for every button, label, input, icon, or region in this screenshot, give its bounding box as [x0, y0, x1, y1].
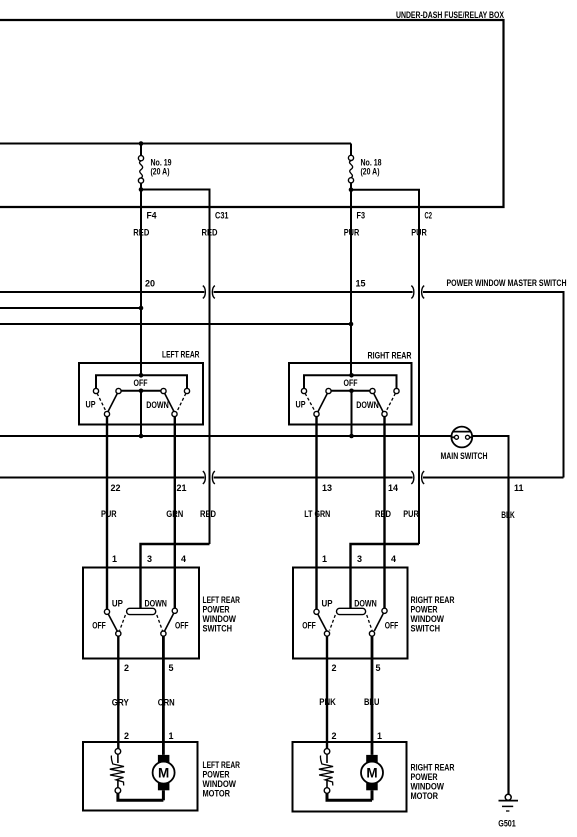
wire internal tee from pin 15 — [0, 322, 353, 327]
left rear power window motor label — [203, 760, 241, 799]
right rear power window motor box — [293, 742, 407, 812]
pin 1 — [112, 554, 117, 564]
svg-text:(20 A): (20 A) — [361, 167, 380, 177]
wire branch to C2 — [351, 190, 419, 207]
svg-text:WINDOW: WINDOW — [411, 614, 445, 624]
pin 3 — [147, 554, 152, 564]
label GRY — [112, 698, 129, 708]
right switch rocker bar — [337, 608, 366, 614]
wire C31 RED vertical — [209, 207, 211, 544]
left switch contact pin1 — [104, 609, 109, 614]
svg-text:OFF: OFF — [344, 378, 358, 388]
pin 4 — [181, 554, 186, 564]
svg-text:MOTOR: MOTOR — [411, 791, 439, 801]
svg-text:F4: F4 — [147, 210, 157, 220]
label ORN — [158, 698, 175, 708]
label PUR — [411, 228, 427, 238]
label RED — [133, 228, 149, 238]
connector break marks bottom border — [203, 471, 424, 484]
fuse No.18 (20A) — [348, 144, 381, 190]
pin 11 — [514, 483, 524, 493]
right rear contacts — [301, 388, 399, 393]
right rear power window motor label — [411, 763, 455, 802]
svg-text:WINDOW: WINDOW — [411, 782, 445, 792]
label GRN — [166, 509, 183, 519]
right rear OFF bus — [304, 373, 397, 388]
svg-text:PUR: PUR — [403, 509, 419, 519]
wire branch to C31 — [141, 190, 210, 208]
pin 2 — [332, 663, 337, 673]
left switch contact pin4 — [172, 567, 177, 613]
pin F3 — [357, 210, 366, 220]
left switch labels — [92, 599, 188, 631]
left rear contacts — [93, 388, 189, 393]
right rear arm bus — [331, 389, 370, 437]
label RED — [375, 509, 391, 519]
svg-text:20: 20 — [145, 279, 155, 289]
wire BLK to ground — [507, 478, 509, 795]
label POWER WINDOW MASTER SWITCH — [447, 278, 567, 288]
svg-text:LEFT REAR: LEFT REAR — [162, 350, 200, 360]
ground G501 — [498, 794, 518, 828]
svg-text:RED: RED — [202, 228, 218, 238]
label BLU — [364, 697, 380, 707]
left motor M1 — [153, 755, 175, 800]
pin C2 — [425, 210, 433, 220]
svg-text:UP: UP — [322, 599, 333, 609]
pin 22 — [111, 483, 121, 493]
svg-text:RIGHT REAR: RIGHT REAR — [411, 595, 455, 605]
svg-text:15: 15 — [356, 279, 366, 289]
node fuse19 top junction — [139, 141, 144, 146]
svg-text:LT GRN: LT GRN — [304, 509, 330, 519]
svg-text:LEFT REAR: LEFT REAR — [203, 760, 241, 770]
svg-text:C2: C2 — [425, 210, 433, 220]
wire pole 22 PUR — [106, 417, 108, 610]
svg-text:F3: F3 — [357, 210, 366, 220]
svg-text:G501: G501 — [498, 818, 516, 829]
left motor circuit breaker — [110, 749, 125, 794]
svg-text:PNK: PNK — [319, 697, 336, 707]
left rear OFF bus — [96, 373, 187, 388]
svg-text:SWITCH: SWITCH — [203, 624, 233, 634]
svg-text:ORN: ORN — [158, 698, 175, 708]
svg-text:UP: UP — [296, 400, 306, 410]
right switch contact pin4 — [382, 567, 387, 613]
pin 21 — [177, 483, 187, 493]
left rear power window switch box — [83, 568, 199, 659]
wire jog PUR to pin3 right — [351, 544, 420, 608]
svg-text:UP: UP — [86, 400, 96, 410]
left motor link wire — [118, 793, 163, 800]
right switch arms — [318, 613, 384, 631]
svg-text:LEFT REAR: LEFT REAR — [203, 595, 241, 605]
svg-text:4: 4 — [391, 554, 396, 564]
pin 4 — [391, 554, 396, 564]
pin 5 — [169, 663, 174, 673]
svg-text:2: 2 — [124, 731, 129, 741]
svg-text:GRN: GRN — [166, 509, 183, 519]
svg-text:PUR: PUR — [101, 509, 117, 519]
svg-text:MAIN SWITCH: MAIN SWITCH — [441, 451, 488, 461]
wire pin5 ORN — [162, 636, 165, 755]
wire F4 RED vertical — [140, 190, 142, 376]
right rear power window switch box — [293, 568, 408, 659]
left rear arm bus — [121, 389, 161, 437]
svg-text:(20 A): (20 A) — [151, 167, 170, 177]
svg-text:DOWN: DOWN — [356, 400, 379, 410]
svg-text:WINDOW: WINDOW — [203, 779, 237, 789]
left rear switch section box — [79, 350, 203, 425]
pin 15 — [356, 279, 366, 289]
svg-text:5: 5 — [169, 663, 174, 673]
wire pin5 BLU — [371, 636, 374, 755]
svg-text:M: M — [158, 766, 169, 781]
label PUR — [344, 228, 360, 238]
wire pole 14 RED — [383, 417, 385, 567]
wire pole 13 LT GRN — [315, 417, 317, 610]
svg-text:OFF: OFF — [92, 620, 106, 630]
svg-text:C31: C31 — [215, 210, 229, 220]
connector break marks top border — [203, 286, 424, 299]
svg-text:RED: RED — [200, 509, 216, 519]
pin F4 — [147, 210, 157, 220]
label PNK — [319, 697, 336, 707]
svg-text:5: 5 — [376, 663, 381, 673]
pin 3 — [357, 554, 362, 564]
label PUR — [101, 509, 117, 519]
label UNDER-DASH FUSE/RELAY BOX — [396, 10, 505, 20]
pin 14 — [388, 483, 398, 493]
left rear power window motor box — [83, 742, 198, 811]
svg-text:UP: UP — [112, 599, 123, 609]
svg-text:3: 3 — [147, 554, 152, 564]
right rear poles — [314, 411, 387, 416]
svg-text:DOWN: DOWN — [144, 599, 167, 609]
label LT GRN — [304, 509, 330, 519]
svg-text:1: 1 — [112, 554, 117, 564]
svg-text:MOTOR: MOTOR — [203, 789, 231, 799]
label PUR — [403, 509, 419, 519]
right rear labels UP DOWN — [296, 400, 380, 411]
svg-text:OFF: OFF — [134, 378, 148, 388]
svg-text:DOWN: DOWN — [354, 599, 377, 609]
label BLK — [501, 510, 515, 520]
svg-text:GRY: GRY — [112, 698, 129, 708]
right rear switch arms — [305, 393, 395, 412]
pin 1 motor — [377, 731, 382, 741]
pin 5 — [376, 663, 381, 673]
left rear switch arms — [97, 393, 186, 412]
svg-text:PUR: PUR — [344, 228, 360, 238]
svg-text:WINDOW: WINDOW — [203, 614, 237, 624]
pin 2 — [124, 663, 129, 673]
svg-text:1: 1 — [377, 731, 382, 741]
left switch poles — [116, 631, 166, 636]
svg-text:POWER: POWER — [203, 605, 230, 615]
master switch box bottom border — [0, 477, 564, 479]
svg-text:POWER: POWER — [411, 772, 438, 782]
wire F3 PUR vertical — [350, 190, 352, 376]
svg-text:RED: RED — [133, 228, 149, 238]
wire internal tee from pin 20 — [0, 306, 143, 311]
ground bus wire — [0, 434, 509, 478]
svg-text:BLU: BLU — [364, 697, 380, 707]
svg-text:POWER: POWER — [203, 770, 230, 780]
svg-text:PUR: PUR — [411, 228, 427, 238]
power window master switch box top border — [0, 292, 564, 478]
node fuse18 branch junction — [349, 187, 354, 192]
svg-text:3: 3 — [357, 554, 362, 564]
svg-text:13: 13 — [322, 483, 332, 493]
wire C2 PUR vertical — [418, 207, 420, 544]
pin 13 — [322, 483, 332, 493]
svg-text:OFF: OFF — [302, 620, 316, 630]
left switch rocker bar — [127, 608, 156, 614]
svg-text:POWER: POWER — [411, 605, 438, 615]
svg-text:2: 2 — [124, 663, 129, 673]
svg-text:2: 2 — [332, 731, 337, 741]
under-dash fuse/relay box — [0, 20, 504, 207]
svg-text:UNDER-DASH FUSE/RELAY BOX: UNDER-DASH FUSE/RELAY BOX — [396, 10, 505, 20]
pin 2 motor — [124, 731, 129, 741]
svg-text:DOWN: DOWN — [146, 400, 169, 410]
right rear switch section box — [289, 351, 412, 425]
node fuse19 branch junction — [139, 187, 144, 192]
svg-text:RIGHT REAR: RIGHT REAR — [411, 763, 455, 773]
svg-text:SWITCH: SWITCH — [411, 624, 441, 634]
left rear labels UP DOWN — [86, 400, 170, 411]
left rear poles — [104, 411, 177, 416]
pin 2 motor — [332, 731, 337, 741]
svg-text:21: 21 — [177, 483, 187, 493]
svg-text:11: 11 — [514, 483, 524, 493]
svg-text:4: 4 — [181, 554, 186, 564]
right motor circuit breaker — [319, 749, 334, 794]
svg-text:1: 1 — [169, 731, 174, 741]
pin C31 — [215, 210, 229, 220]
svg-text:1: 1 — [322, 554, 327, 564]
wire pin2 PNK — [326, 636, 328, 749]
svg-text:RIGHT REAR: RIGHT REAR — [368, 351, 412, 361]
left rear power window switch label — [203, 595, 241, 634]
right switch poles — [324, 631, 374, 636]
right rear power window switch label — [411, 595, 455, 634]
svg-text:22: 22 — [111, 483, 121, 493]
wire feed bus — [0, 143, 351, 145]
right switch contact pin1 — [314, 609, 319, 614]
right motor M2 — [361, 755, 383, 800]
svg-text:2: 2 — [332, 663, 337, 673]
wire jog RED to pin3 left — [141, 544, 210, 608]
fuse No.19 (20A) — [138, 144, 171, 190]
main switch — [441, 427, 488, 461]
svg-text:RED: RED — [375, 509, 391, 519]
pin 20 — [145, 279, 155, 289]
label RED — [202, 228, 218, 238]
wire pole 21 GRN — [174, 417, 176, 567]
wire pin2 GRY — [117, 636, 119, 749]
right motor link wire — [327, 793, 372, 800]
left switch arms — [108, 613, 173, 631]
svg-text:POWER WINDOW MASTER SWITCH: POWER WINDOW MASTER SWITCH — [447, 278, 567, 288]
svg-text:OFF: OFF — [385, 620, 399, 630]
right switch labels — [302, 599, 398, 631]
pin 1 motor — [169, 731, 174, 741]
svg-text:OFF: OFF — [175, 620, 189, 630]
svg-text:M: M — [366, 766, 377, 781]
pin 1 — [322, 554, 327, 564]
svg-text:14: 14 — [388, 483, 398, 493]
label RED — [200, 509, 216, 519]
